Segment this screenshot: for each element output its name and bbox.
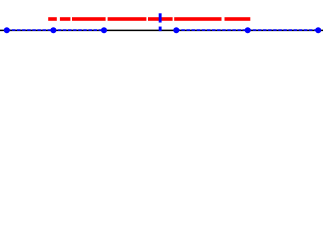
interval I3 red [72,17,106,21]
node P1 [4,27,10,33]
interval I6 red [174,17,221,21]
node P3 [101,27,107,33]
interval I1 red [48,17,57,21]
wire dashed blue segment right (x3 to x5) [176,29,318,31]
interval I4 red [108,17,147,21]
interval I7 red [225,17,251,21]
marker vertical dashed blue line at x=160 [159,13,162,31]
interval I2 red [60,17,71,21]
node P5 [245,27,251,33]
axis number line [0,29,323,31]
wire dashed blue segment left (x0 to x1) [7,29,104,31]
node P6 [315,27,321,33]
node P2 [50,27,56,33]
interval I5 red [148,17,173,21]
node P4 [173,27,179,33]
